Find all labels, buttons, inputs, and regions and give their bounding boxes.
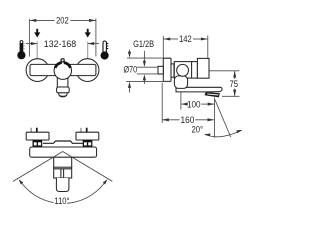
svg-text:202: 202: [56, 16, 69, 26]
svg-text:160: 160: [181, 115, 195, 125]
svg-text:132-168: 132-168: [44, 39, 76, 49]
svg-text:Ø70: Ø70: [124, 64, 138, 74]
svg-text:G1/2B: G1/2B: [133, 39, 154, 49]
svg-text:20°: 20°: [192, 125, 204, 135]
svg-text:75: 75: [230, 79, 239, 89]
svg-text:142: 142: [179, 34, 192, 44]
svg-text:100: 100: [187, 99, 201, 109]
svg-text:110°: 110°: [54, 196, 70, 206]
